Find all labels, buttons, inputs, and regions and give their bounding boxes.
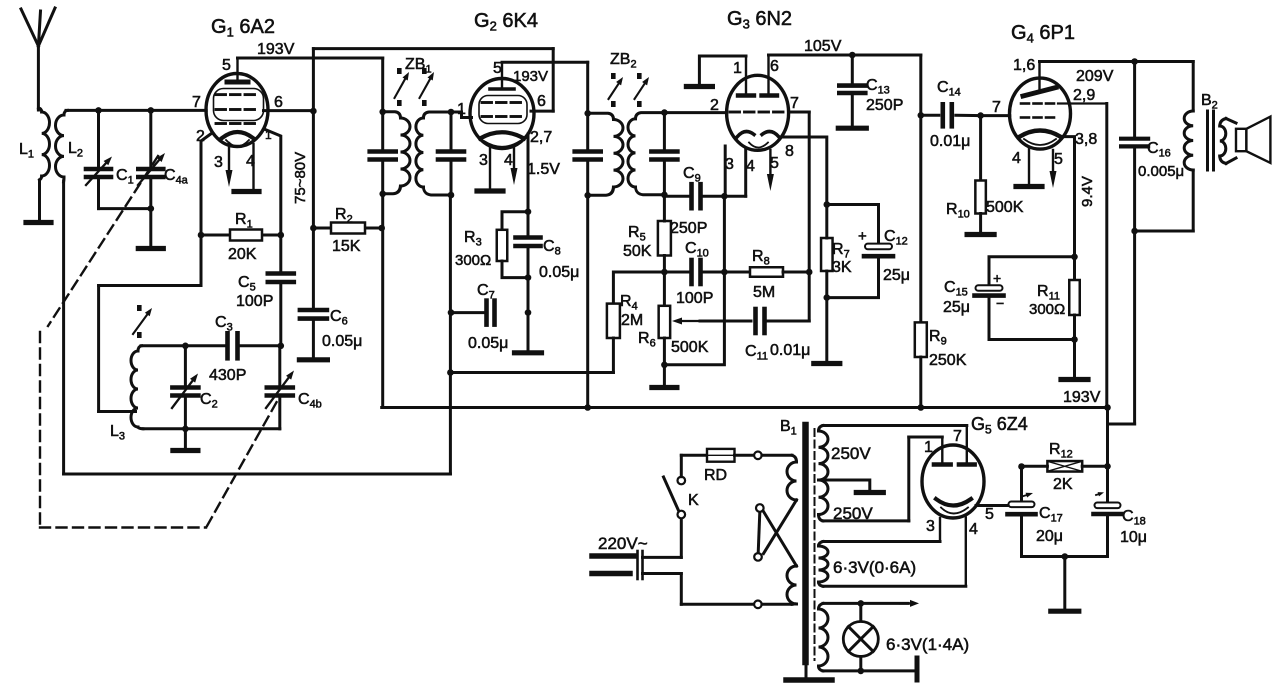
ground (C6) [299, 357, 327, 362]
terminal (tap upper) [756, 504, 764, 512]
antenna [21, 8, 55, 110]
tube G4 envelope [1010, 78, 1071, 149]
node: R1 left [198, 232, 205, 239]
wire: L3 top to C3 [141, 344, 228, 347]
label 0.05u (C7) [468, 335, 508, 352]
svg-text:3,8: 3,8 [1075, 131, 1097, 148]
svg-text:L1: L1 [19, 141, 34, 161]
capacitor C2 (variable) [172, 346, 198, 429]
wire: 105V down to R9 [919, 115, 922, 322]
svg-text:1: 1 [924, 439, 933, 456]
ground (C2) [173, 448, 198, 453]
label 2M [621, 312, 643, 329]
svg-text:C5: C5 [238, 274, 256, 294]
wire: 209V rail [1040, 60, 1194, 63]
svg-text:20K: 20K [228, 246, 257, 263]
node: lamp bottom [858, 668, 865, 675]
transformer primary winding upper [787, 455, 796, 500]
G5 anode bars [934, 426, 975, 465]
node: R3/C8 top [525, 208, 532, 215]
wire: 105V rail corner down [919, 55, 922, 115]
capacitor C5 [268, 235, 294, 346]
wire: to R3 top [502, 212, 528, 230]
svg-text:C2: C2 [200, 391, 218, 411]
pilot lamp [843, 603, 878, 671]
G2 pin labels [457, 60, 552, 169]
node: C16 top [1131, 58, 1138, 65]
wire: G3 pin4 [744, 150, 747, 196]
resistor R1 [201, 230, 281, 241]
label 0.05u (C6) [322, 333, 362, 350]
G4 plate bar [1023, 62, 1056, 97]
svg-text:9.4V: 9.4V [1079, 176, 1096, 207]
node: ZB2 primary bottom [584, 192, 591, 199]
svg-text:25μ: 25μ [943, 299, 970, 316]
wire: cathode up to R12 left [1020, 467, 1023, 506]
G3 cathode arcs [737, 132, 779, 137]
capacitor C17 (electrolytic) [1008, 467, 1065, 557]
node: ZB2 primary top [584, 110, 591, 117]
wire: terminal to winding bottom [762, 603, 792, 606]
coil L3 [131, 346, 143, 429]
label C18 [1122, 508, 1146, 528]
ground (C13) [838, 126, 866, 131]
label 0.05u (C8) [539, 264, 579, 281]
svg-text:100P: 100P [676, 290, 713, 307]
ZB2 right slug [635, 73, 650, 107]
label ZB1 [405, 56, 432, 76]
node: R7/C12 top [824, 201, 831, 208]
svg-text:G4 6P1: G4 6P1 [1011, 22, 1075, 46]
capacitor C4a (variable) [138, 110, 165, 208]
svg-text:RD: RD [704, 467, 727, 484]
wire: plug to switch [643, 518, 682, 557]
ground (G2 pin3) [477, 188, 503, 193]
wire: G1 pin6 to screen node [264, 109, 314, 112]
label C16 [1147, 140, 1171, 160]
label L2 [68, 140, 83, 160]
ZB2 secondary capacitor [651, 113, 677, 195]
G3 grid dashes [730, 111, 783, 114]
label 0.01u (C14) [930, 133, 970, 150]
coil L2 [55, 110, 67, 182]
label C12 [884, 228, 908, 248]
node: R12 left [1018, 463, 1025, 470]
wire: G3 pin2 grid to ZB2 secondary [664, 111, 726, 114]
svg-text:3: 3 [479, 152, 488, 169]
node: C2 bottom junction [182, 426, 189, 433]
svg-text:−: − [996, 295, 1004, 311]
resistor R8 [750, 267, 783, 277]
svg-text:6: 6 [274, 94, 283, 111]
wire: screen node up to B+ bus [312, 49, 315, 111]
svg-text:+: + [858, 228, 867, 245]
node: R6 bottom [661, 362, 668, 369]
svg-text:193V: 193V [513, 68, 548, 85]
ZB2 secondary coil [628, 113, 664, 195]
node: R5/R4/C10 node [661, 269, 668, 276]
label C6 [330, 308, 348, 328]
heater winding 6.3V(0.6A) [819, 542, 829, 587]
wire: R3 bottom [502, 261, 528, 278]
dashed gang line (left vertical) [39, 332, 41, 524]
ground (L1) [26, 220, 51, 225]
wire: C9 right to G3 cathode [701, 195, 746, 198]
G3 plate bars [738, 55, 777, 96]
label 193V (rail) [1063, 389, 1101, 406]
wire: R1 left to y285 corner [200, 235, 203, 286]
node: C16 bottom [1131, 228, 1138, 235]
svg-text:R4: R4 [620, 293, 638, 313]
G1 pin4 cathode lead [252, 144, 254, 189]
dashed gang line (to C4b) [207, 396, 280, 526]
G4 screen dashes [1021, 102, 1054, 105]
label 430P [209, 367, 246, 384]
label + (C17) [1022, 493, 1033, 498]
label R8 [752, 248, 770, 268]
wire: AVC return loop (L2 bottom) [64, 181, 451, 474]
svg-text:C7: C7 [477, 282, 495, 302]
HV secondary winding (250V-0-250V) [819, 426, 829, 521]
node: C13 tap [849, 52, 856, 59]
wire: corner to x98 [99, 284, 201, 287]
wire: G2 pin5 to ZB2 primary top [502, 62, 588, 113]
label 75~80V [292, 152, 309, 204]
label R11 [1037, 283, 1060, 303]
label ZB2 [610, 51, 637, 71]
wire: R6 bottom stem to ground [663, 365, 666, 385]
label minus (C15) [996, 295, 1004, 311]
wire: plug bottom to primary bottom [643, 574, 755, 605]
svg-text:300Ω: 300Ω [1029, 301, 1065, 318]
label G2 6K4 [474, 10, 538, 34]
node: screen node on G1 pin6 wire [310, 108, 317, 115]
label 15K [332, 238, 361, 255]
svg-text:B1: B1 [780, 418, 797, 438]
svg-text:G1 6A2: G1 6A2 [211, 16, 275, 40]
G1 grid dashes [216, 95, 255, 124]
label 2K [1053, 476, 1073, 493]
label 100P [236, 293, 273, 310]
node: R9 on B+ rail [918, 404, 925, 411]
G4 pin labels [992, 57, 1097, 168]
wire: ZB1 primary bottom to R2/B+ drop [381, 194, 384, 408]
wire: G1 pin1 oscillator anode lead [264, 129, 281, 235]
G4 pin5 heater arrow [1050, 150, 1057, 188]
ground (C7/G2 cathode) [515, 350, 542, 355]
ZB2 primary capacitor [575, 113, 601, 195]
resistor R10 [975, 116, 986, 232]
node: C1 top junction [95, 107, 102, 114]
wire: fuse to primary top [735, 454, 755, 457]
ground (HV centre tap) [856, 490, 883, 495]
wire: G1 pin5 to ZB1 primary top [238, 58, 383, 112]
G2 plate bar (pin5) [490, 62, 514, 89]
label G3 6N2 [727, 8, 792, 32]
ground (R10) [967, 232, 994, 237]
label C14 [937, 79, 961, 99]
band switch contact icon [133, 305, 152, 338]
label C11 [745, 343, 768, 363]
svg-text:4: 4 [504, 152, 513, 169]
node: R7 bottom [824, 294, 831, 301]
wire: heater winding bottom to G5 pin4 [823, 585, 966, 588]
wire: HV top to G5 pin7 [823, 424, 967, 427]
G1 cathode arc [222, 132, 253, 138]
svg-text:250P: 250P [670, 220, 707, 237]
label C17 [1039, 505, 1063, 525]
ZB1 secondary capacitor [438, 112, 464, 195]
wire: G2 cathode 2,7 lead [527, 134, 530, 212]
node: ZB1 secondary bottom [448, 192, 455, 199]
node: R2 left [310, 225, 317, 232]
label C4a [164, 167, 189, 187]
svg-text:8: 8 [785, 143, 794, 160]
tube G2 envelope [470, 79, 534, 149]
svg-text:250K: 250K [929, 352, 967, 369]
svg-text:20μ: 20μ [1036, 528, 1063, 545]
G1 pin3 heater arrow [226, 143, 233, 187]
ground (G4 pin4) [1016, 184, 1042, 189]
svg-text:R7: R7 [832, 241, 850, 261]
label 500K [671, 339, 709, 356]
label C7 [477, 282, 495, 302]
switch K [664, 477, 686, 519]
svg-text:0.05μ: 0.05μ [539, 264, 579, 281]
wire: lamp winding top with heater-bus arrow [823, 600, 919, 607]
node: C1/C4a bottom junction [148, 205, 155, 212]
svg-text:C3: C3 [215, 314, 233, 334]
wire: C3 to C5/C4b corner [238, 344, 281, 347]
wire: R12 right up to B+ rail [1106, 408, 1109, 467]
label 10u (C18) [1120, 529, 1147, 546]
wire: L2 top to G1 grid pin7 [66, 109, 206, 112]
svg-text:300Ω: 300Ω [455, 252, 491, 269]
wire: screen node down to R2 [312, 111, 315, 228]
label 20u (C17) [1036, 528, 1063, 545]
node: C9 right / G3 pin3 [721, 193, 728, 200]
wire: C11 right up to R8 right [765, 272, 810, 321]
wire: 193V B+ rail [382, 406, 1108, 409]
transformer primary winding lower [787, 566, 796, 604]
coil L1 [38, 108, 49, 219]
svg-text:G2 6K4: G2 6K4 [474, 10, 538, 34]
capacitor C3 [228, 333, 238, 358]
wire: C2 bottom to ground [184, 429, 187, 448]
svg-text:R2: R2 [335, 206, 353, 226]
wire: G3 pin6 to 105V rail [769, 54, 921, 57]
svg-text:1,6: 1,6 [1013, 57, 1035, 74]
svg-text:R6: R6 [638, 330, 656, 350]
resistor R6 (volume pot) [659, 306, 671, 338]
node: ZB2 secondary top [661, 109, 668, 116]
G2 grid dashes [482, 103, 521, 117]
label C1 [116, 167, 134, 187]
G2 pin3 cathode lead [489, 146, 491, 188]
wire: terminal to winding [762, 454, 792, 457]
capacitor C18 (electrolytic) [1065, 466, 1122, 556]
label 500K (R10) [986, 199, 1024, 216]
svg-text:C9: C9 [683, 165, 701, 185]
svg-text:R12: R12 [1049, 441, 1073, 461]
wire: R9 bottom to B+ rail [919, 357, 922, 408]
svg-text:50K: 50K [623, 243, 652, 260]
node: ZB1 primary top [379, 109, 386, 116]
wire: G3 pin8 cathode2 [780, 137, 827, 205]
G2 heater arc [484, 141, 520, 147]
svg-text:105V: 105V [804, 38, 842, 55]
G2 cathode arc [480, 132, 524, 138]
label 0.005u (C16) [1138, 163, 1184, 180]
svg-text:R10: R10 [946, 201, 970, 221]
wire: G3 pin1 to ground [699, 56, 746, 84]
resistor R9 [915, 322, 927, 357]
svg-text:6: 6 [770, 58, 779, 75]
svg-text:193V: 193V [1063, 389, 1101, 406]
svg-text:250P: 250P [866, 97, 903, 114]
node: C2 top junction [182, 343, 189, 350]
svg-text:25μ: 25μ [883, 267, 910, 284]
ground (R11) [1061, 377, 1088, 382]
svg-text:209V: 209V [1076, 68, 1114, 85]
svg-text:C10: C10 [685, 240, 709, 260]
G1 pin labels [192, 57, 283, 171]
svg-text:100P: 100P [236, 293, 273, 310]
dashed gang line (left diagonal) [48, 156, 158, 326]
wire: tap into L3 [99, 410, 136, 413]
label + (C12) [858, 228, 867, 245]
label 100P (C10) [676, 290, 713, 307]
label 5M [753, 284, 775, 301]
wire: G4 screen 2,9 to B+ rail [1058, 104, 1107, 408]
label 300ohm (R3) [455, 252, 491, 269]
label 0.01u (C11) [770, 342, 810, 359]
resistor R3 [497, 230, 508, 261]
label 250V (bottom) [833, 504, 873, 523]
G3 pin labels [710, 58, 799, 175]
wire: R7 bottom to ground [825, 298, 828, 361]
ZB1 secondary coil [416, 112, 451, 195]
label 3K [832, 259, 852, 276]
node: G4 grid node [977, 112, 984, 119]
wire: R4 top to C10 [613, 272, 691, 304]
node: R1 right [278, 232, 285, 239]
svg-text:R5: R5 [628, 224, 646, 244]
wire: core to ground [805, 662, 808, 677]
ground (G1 pin4) [234, 189, 259, 194]
G5 cathode arc [936, 499, 971, 506]
wire: R6 bottom [663, 338, 666, 365]
svg-text:C17: C17 [1039, 505, 1063, 525]
output transformer primary [1135, 62, 1194, 232]
wire: C10 right to R8 [701, 271, 751, 274]
capacitor C11 [756, 309, 765, 333]
label R9 [929, 328, 947, 348]
node: AVC junction [447, 369, 454, 376]
label G5 6Z4 [971, 414, 1028, 437]
wire: C1 bottom to C4a bottom [99, 207, 151, 210]
wire: ZB2 sec bottom to C9 [664, 195, 691, 198]
wire: C7 left [451, 311, 487, 314]
terminal (primary top) [754, 452, 762, 460]
node: filter ground junction [1062, 553, 1069, 560]
transformer core B1 [806, 425, 815, 662]
capacitor C13 [839, 55, 865, 126]
G4 cathode arc [1019, 131, 1061, 138]
svg-text:430P: 430P [209, 367, 246, 384]
terminal (tap lower) [754, 553, 762, 561]
svg-text:C4b: C4b [298, 391, 322, 411]
label R10 [946, 201, 970, 221]
terminal (primary bottom) [754, 601, 762, 609]
svg-text:1.5V: 1.5V [527, 161, 560, 178]
svg-text:4: 4 [746, 158, 755, 175]
label + (C15) [993, 270, 1001, 286]
wire: R6 bottom to cathode return [664, 272, 724, 365]
ZB2 primary coil [588, 113, 623, 195]
wire: G1 pin2 oscillator grid lead [201, 133, 212, 235]
label B2 [1201, 92, 1218, 112]
capacitor C10 [692, 260, 701, 284]
wire: G2 pin6 to screen bus [531, 110, 553, 113]
pilot lamp winding 6.3V(1.4A) [819, 603, 829, 671]
node: C8 bottom [525, 274, 532, 281]
svg-text:C12: C12 [884, 228, 908, 248]
label G4 6P1 [1011, 22, 1075, 46]
svg-text:R8: R8 [752, 248, 770, 268]
label C10 [685, 240, 709, 260]
G5 pin4 lead [965, 518, 967, 587]
primary tap crossover [758, 500, 796, 566]
label R5 [628, 224, 646, 244]
node: ZB1 primary bottom [379, 191, 386, 198]
wire: R8 right to G3 grid2 [783, 271, 809, 274]
svg-text:250V: 250V [831, 444, 871, 463]
capacitor C15 (electrolytic) [975, 257, 1075, 340]
svg-text:0.005μ: 0.005μ [1138, 163, 1184, 180]
wire: G5 pin5 cathode output [976, 504, 1022, 507]
resistor R11 [1069, 257, 1080, 340]
svg-text:K: K [688, 492, 699, 509]
output transformer core [1208, 111, 1214, 170]
wire: transformer return to B+ rail [1108, 231, 1135, 424]
svg-text:7: 7 [992, 99, 1001, 116]
label 220V~ [598, 534, 648, 553]
svg-text:193V: 193V [257, 41, 295, 58]
svg-text:5: 5 [1054, 151, 1063, 168]
svg-text:R3: R3 [464, 229, 482, 249]
tube G5 envelope [922, 445, 984, 518]
G1 grid frame [214, 89, 264, 121]
tube G1 envelope [206, 74, 268, 147]
capacitor C1 (variable) [86, 110, 112, 208]
svg-text:C6: C6 [330, 308, 348, 328]
mains plug [592, 551, 643, 579]
svg-text:C18: C18 [1122, 508, 1146, 528]
label 193V (G1 plate) [257, 41, 295, 58]
capacitor C16 [1121, 62, 1148, 232]
svg-text:7: 7 [790, 95, 799, 112]
label C5 [238, 274, 256, 294]
label 209V [1076, 68, 1114, 85]
node: C3/C5/C4b junction [278, 343, 285, 350]
node: R11 bottom [1071, 336, 1078, 343]
wire: L3 bottom line [143, 427, 280, 430]
node: R12 right [1104, 463, 1111, 470]
G3 heater arc [749, 143, 768, 148]
wire: R11 bottom to ground [1073, 340, 1076, 378]
wire: switch to fuse [681, 455, 707, 476]
